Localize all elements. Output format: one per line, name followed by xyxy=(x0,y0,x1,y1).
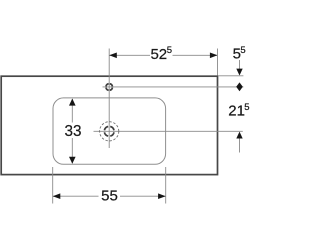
dimension 55: right arrow xyxy=(158,193,166,199)
dimension 5.5: lead line above arrow xyxy=(239,60,241,69)
tap hole xyxy=(106,84,113,91)
washbasin outer outline xyxy=(1,76,217,174)
svg-text:5: 5 xyxy=(240,45,245,56)
dimension 55: left extension line xyxy=(52,167,54,204)
dimension 33: top arrow xyxy=(69,99,76,106)
dimension 55: right extension line xyxy=(165,167,167,204)
dimension 33: label xyxy=(64,123,81,140)
dimension 52.5: line segments xyxy=(109,54,217,56)
drain outer dashed circle xyxy=(100,122,119,141)
dimension 55: line segments xyxy=(53,195,166,197)
dimension 5.5: label xyxy=(233,45,246,63)
svg-text:5: 5 xyxy=(167,45,172,56)
dimension 52.5: right extension line xyxy=(217,49,219,76)
svg-text:5: 5 xyxy=(244,102,249,113)
dimension 55: left arrow xyxy=(53,193,61,199)
vertical centerline through tap hole and drain xyxy=(108,49,110,149)
dimension 5.5: down arrow xyxy=(236,69,242,76)
dimension 21.5: label xyxy=(228,102,249,120)
dimension 33: line segments xyxy=(71,99,73,163)
svg-text:52: 52 xyxy=(150,46,167,63)
horizontal centerline through tap hole (extends right to 5.5/21.5 dims) xyxy=(103,86,244,88)
dimension 52.5: left arrow xyxy=(109,53,117,59)
dimension 21.5: up arrow xyxy=(236,132,242,139)
svg-text:55: 55 xyxy=(101,188,118,205)
svg-text:21: 21 xyxy=(228,103,245,120)
dimension 52.5: label xyxy=(150,45,172,63)
dimension 21.5: lead line below arrow xyxy=(239,139,241,153)
dimension 55: label xyxy=(101,188,118,205)
drain bold ring xyxy=(104,127,114,137)
dimension 5.5: extension line at sink top edge xyxy=(218,75,243,77)
svg-text:33: 33 xyxy=(64,123,81,140)
shared arrow diamond at tap hole line xyxy=(236,82,243,91)
horizontal centerline through drain (extends right to 21.5 dim) xyxy=(94,130,243,132)
dimension 52.5: right arrow xyxy=(210,53,218,59)
dimension 33: bottom arrow xyxy=(69,157,76,164)
inner basin rounded outline xyxy=(53,98,166,164)
